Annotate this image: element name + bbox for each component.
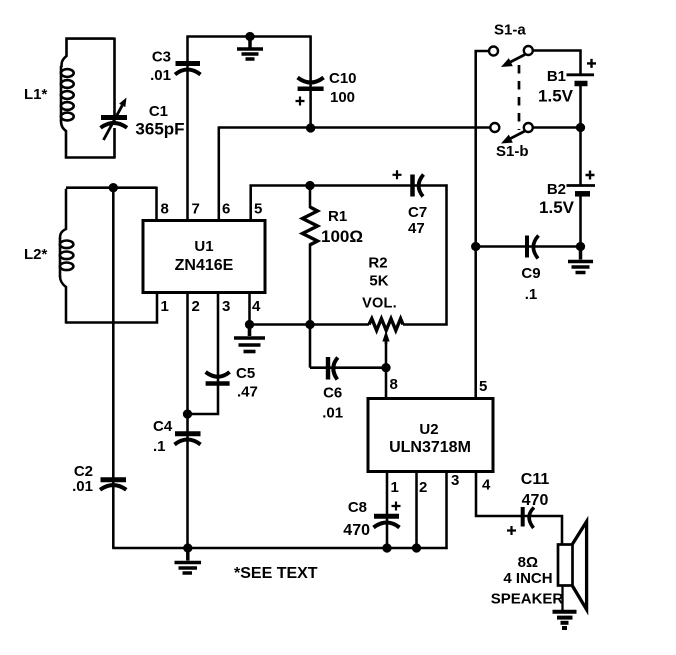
node R1 top	[305, 181, 314, 190]
wire L1 right edge bottom segment	[113, 128, 116, 159]
wire R2 row to pin4 junction	[248, 323, 369, 326]
svg-text:S1-b: S1-b	[496, 143, 529, 160]
wire C3 branch to U1 pin 7	[186, 35, 189, 221]
svg-text:C5: C5	[236, 365, 255, 382]
svg-text:VOL.: VOL.	[362, 296, 397, 312]
wire R1 stub top	[309, 184, 312, 208]
node C9 right / B2 ground	[576, 242, 585, 251]
svg-text:C9: C9	[521, 265, 540, 282]
svg-text:8: 8	[161, 201, 169, 218]
svg-text:470: 470	[343, 522, 370, 539]
wire U1 pin 5 riser	[251, 186, 448, 222]
inductor L2 coil	[60, 238, 74, 277]
wire right side of R2 loop	[403, 184, 447, 324]
svg-text:S1-a: S1-a	[494, 22, 526, 39]
node B1 / S1-b	[576, 123, 585, 132]
IC U2 ULN3718M	[368, 399, 493, 472]
node C4 / C5	[183, 409, 192, 418]
svg-text:2: 2	[192, 298, 200, 315]
svg-text:C3: C3	[152, 49, 171, 66]
wire C10 branch	[309, 35, 312, 128]
svg-text:.1: .1	[525, 286, 538, 303]
node bottom rail ground	[183, 543, 192, 552]
wire S1-a right to battery B1	[532, 51, 580, 75]
svg-text:ULN3718M: ULN3718M	[389, 439, 471, 456]
battery B2	[567, 171, 596, 194]
wire U1 pin 6 riser	[218, 126, 221, 221]
svg-text:1: 1	[391, 479, 399, 496]
svg-text:365pF: 365pF	[135, 120, 184, 139]
node C9 left	[471, 242, 480, 251]
svg-text:470: 470	[522, 492, 549, 509]
resistor R2 (potentiometer)	[369, 319, 403, 344]
ground (top rail)	[237, 37, 263, 60]
svg-text:B2: B2	[547, 181, 566, 198]
svg-text:100Ω: 100Ω	[321, 227, 363, 246]
wire S1-a left leg down to U2 pin 5	[476, 51, 490, 399]
svg-text:C1: C1	[149, 103, 168, 120]
wire L1 left lower + bottom edge	[61, 121, 115, 158]
svg-text:.01: .01	[150, 67, 171, 84]
svg-text:*SEE TEXT: *SEE TEXT	[234, 565, 318, 582]
svg-text:47: 47	[408, 220, 425, 237]
svg-text:8Ω: 8Ω	[518, 554, 538, 571]
switch S1-a	[489, 46, 533, 67]
svg-text:100: 100	[330, 89, 355, 106]
svg-text:B1: B1	[547, 68, 566, 85]
svg-text:L2*: L2*	[24, 246, 48, 263]
wire C9 row	[476, 245, 581, 248]
svg-text:U2: U2	[419, 421, 438, 438]
svg-text:2: 2	[419, 479, 427, 496]
wire U1 pin 2 down through C4	[186, 292, 189, 548]
node U1 pin 4 ground	[245, 320, 254, 329]
capacitor C6	[328, 357, 338, 380]
svg-text:8: 8	[390, 376, 398, 393]
ground (U1 pin 4)	[234, 325, 265, 352]
svg-text:R2: R2	[368, 255, 387, 272]
wire B2 to C9 junction	[579, 195, 582, 247]
node C10 / mid rail	[306, 123, 315, 132]
inductor L1 coil	[60, 66, 63, 121]
svg-text:4: 4	[482, 477, 491, 494]
svg-text:R1: R1	[328, 208, 347, 225]
wire L2 left edge lower	[60, 276, 66, 324]
svg-text:5K: 5K	[369, 273, 388, 290]
switch gang dashed link	[518, 65, 521, 130]
capacitor C11	[507, 507, 534, 535]
svg-text:7: 7	[192, 201, 200, 218]
node top-rail ground tap	[245, 32, 254, 41]
svg-text:.1: .1	[153, 438, 166, 455]
battery B1	[567, 59, 597, 84]
wire bottom rail	[112, 547, 447, 550]
svg-text:C4: C4	[153, 418, 173, 435]
svg-text:C7: C7	[408, 204, 427, 221]
svg-text:1.5V: 1.5V	[539, 198, 575, 217]
wire C6 row	[310, 366, 386, 369]
svg-text:ZN416E: ZN416E	[175, 257, 234, 274]
wire U1 pin 4 stub	[248, 292, 251, 326]
speaker	[558, 522, 587, 612]
wire top rail	[188, 35, 311, 38]
node R1 bottom	[305, 320, 314, 329]
wire L2 left edge with coil gap	[60, 189, 66, 239]
inductor L1 tank loop	[62, 39, 115, 67]
wire L2 top edge	[66, 186, 157, 189]
capacitor C3	[175, 64, 201, 75]
wire U1 pin 3 down through C5	[186, 292, 218, 414]
svg-text:L1*: L1*	[24, 86, 48, 103]
wire B1 to B2	[579, 85, 582, 185]
resistor R1	[303, 207, 318, 245]
capacitor C4	[175, 434, 201, 445]
wire U1 pin 8 drop	[155, 187, 158, 221]
svg-text:1: 1	[161, 298, 169, 315]
wire S1-b right to battery line	[532, 126, 580, 129]
svg-text:5: 5	[479, 378, 487, 395]
capacitor C2	[100, 480, 126, 490]
svg-text:C6: C6	[323, 385, 342, 402]
svg-text:C8: C8	[348, 499, 367, 516]
capacitor C5	[206, 372, 230, 384]
capacitor C7	[393, 170, 424, 196]
wire U2 pin 3 down	[445, 471, 448, 549]
node L2 top tap	[109, 183, 118, 192]
IC U1 ZN416E	[143, 221, 265, 293]
svg-text:C10: C10	[329, 70, 357, 87]
svg-text:3: 3	[222, 298, 230, 315]
wire U2 pin 2 down	[415, 471, 418, 548]
wire R1 junction down to C6	[309, 323, 312, 367]
svg-text:.47: .47	[237, 384, 258, 401]
svg-text:C11: C11	[521, 471, 550, 488]
svg-text:U1: U1	[194, 238, 213, 255]
capacitor C9	[527, 236, 539, 259]
ground (bottom rail)	[175, 548, 202, 573]
svg-text:3: 3	[451, 472, 459, 489]
ground (B2 / C9)	[568, 247, 593, 273]
node C8 / bottom rail	[382, 543, 391, 552]
capacitor C10	[296, 78, 324, 106]
wire U2 pin 4 to C11 to speaker	[476, 471, 562, 546]
wire U2 pin 1 down through C8	[386, 471, 389, 548]
svg-text:4 INCH: 4 INCH	[503, 570, 552, 587]
svg-text:SPEAKER: SPEAKER	[491, 591, 564, 608]
wire L1 right edge top segment	[113, 38, 116, 118]
node U2 pin 2 / bottom rail	[412, 543, 421, 552]
capacitor C8	[374, 502, 401, 528]
svg-text:.01: .01	[322, 405, 343, 422]
wire U2 pin 8 stub	[385, 367, 388, 399]
switch S1-b	[490, 123, 533, 144]
wire L2 bottom to U1 pin 1	[66, 292, 157, 323]
svg-text:4: 4	[252, 298, 261, 315]
node wiper / C6 / U2 pin 8	[381, 363, 390, 372]
wire mid rail to S1-b	[219, 126, 491, 129]
svg-text:1.5V: 1.5V	[538, 87, 574, 106]
ground (speaker)	[553, 612, 577, 628]
wire center tap from L2 down to bottom rail	[112, 188, 115, 548]
svg-text:.01: .01	[72, 478, 93, 495]
svg-text:6: 6	[222, 201, 230, 218]
svg-text:5: 5	[254, 201, 262, 218]
wire R2 wiper stem	[385, 341, 388, 369]
capacitor C1 (variable)	[101, 98, 128, 141]
wire R1 stub bottom	[309, 244, 312, 326]
